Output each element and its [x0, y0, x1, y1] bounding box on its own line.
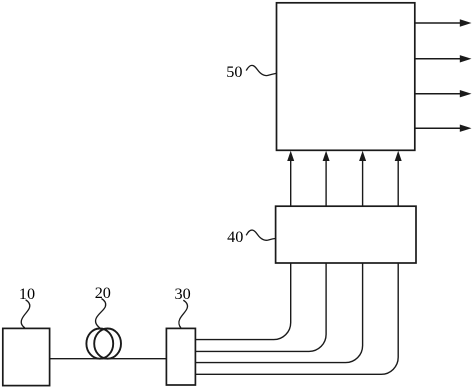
box 30 (splitter block): [166, 328, 195, 385]
wire W2 (box30 out 2 to box40): [195, 263, 326, 351]
leader squiggle 40: [246, 230, 276, 240]
output arrow O1: [415, 19, 472, 26]
output arrow O2: [415, 55, 472, 62]
svg-text:50: 50: [226, 63, 242, 81]
wire W3 (box30 out 3 to box40): [195, 263, 362, 363]
leader squiggle 20: [96, 299, 106, 328]
output arrow O4: [415, 125, 472, 132]
arrow A3: [359, 151, 366, 206]
wire W1 (box30 out 1 to box40): [195, 263, 290, 340]
leader squiggle 30: [179, 300, 188, 328]
leader squiggle 10: [21, 300, 29, 328]
svg-text:30: 30: [175, 285, 191, 303]
box 40 (detector array block): [276, 206, 416, 263]
arrow A4: [395, 151, 402, 206]
output arrow O3: [415, 90, 472, 97]
wire W4 (box30 out 4 to box40): [195, 263, 398, 374]
box 50 (output block): [277, 3, 415, 151]
svg-text:40: 40: [227, 228, 243, 246]
wire fiber line (box10 to box30): [50, 358, 167, 360]
arrow A2: [323, 151, 330, 206]
box 10 (source block): [3, 328, 50, 385]
fiber coil 20: [86, 329, 121, 359]
leader squiggle 50: [246, 65, 277, 75]
arrow A1 (box40 to box50): [287, 151, 294, 206]
